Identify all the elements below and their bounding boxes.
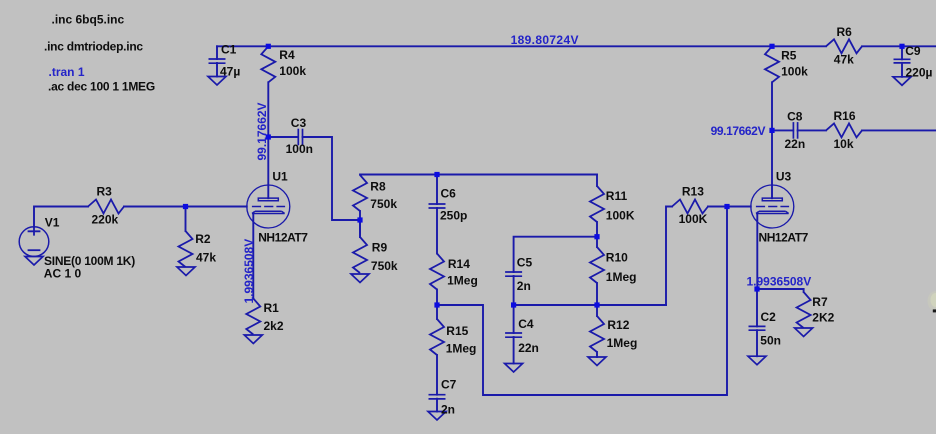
resistor R5 [765,46,779,82]
svg-text:C2: C2 [761,310,777,324]
svg-text:1Meg: 1Meg [446,342,477,356]
wire R8 bottom lead [359,220,361,237]
svg-text:.inc 6bq5.inc: .inc 6bq5.inc [52,12,125,26]
wire C3 right plate to R8 branch [303,137,360,220]
svg-text:99.17662V: 99.17662V [711,124,766,138]
wire C9 bottom lead [901,63,903,77]
svg-text:C9: C9 [905,44,921,58]
svg-text:100k: 100k [279,64,306,78]
svg-text:R16: R16 [834,109,856,123]
svg-text:47µ: 47µ [220,64,240,78]
cursor artifact at right edge [928,291,936,312]
svg-text:NH12AT7: NH12AT7 [258,230,308,244]
svg-text:R15: R15 [446,324,468,338]
resistor R12 [590,316,604,352]
node junction rail / C6 [434,172,439,177]
svg-text:1.9936508V: 1.9936508V [747,275,812,289]
svg-text:U1: U1 [272,169,288,183]
capacitor C4 [505,333,522,337]
wire C2 top lead [756,289,758,326]
wire R5 bottom lead [771,82,773,130]
wire node to C3 left plate [268,136,298,138]
wire U1 anode lead [267,137,269,198]
wire bottom bus C5 node to corner [514,304,666,306]
svg-text:R9: R9 [372,241,388,255]
svg-text:C5: C5 [517,255,533,269]
wire C4 top lead [513,305,515,333]
svg-text:1Meg: 1Meg [606,270,637,284]
svg-text:C3: C3 [291,116,307,130]
svg-text:R3: R3 [97,184,113,198]
node junction U3 cathode / C2 / R7 [754,286,759,291]
wire U1 cathode lead to R1 [252,214,254,299]
wire cathode node to R7 [757,288,804,290]
resistor R16 [826,123,862,137]
wire R11 top lead [596,175,598,187]
svg-text:47k: 47k [196,251,216,265]
svg-text:100n: 100n [286,142,313,156]
ground at V1 [25,257,43,266]
resistor R2 [179,231,193,267]
node junction R3 / R2 / U1 grid [183,204,188,209]
wire U3 cathode lead [756,214,758,290]
node junction R13 / U3 grid [724,204,729,209]
svg-text:.ac dec 100 1 1MEG: .ac dec 100 1 1MEG [48,80,155,94]
svg-text:V1: V1 [45,215,60,229]
resistor R6 [826,39,862,53]
svg-text:22n: 22n [518,341,539,355]
wire corner up to R13 [666,207,672,306]
svg-text:R1: R1 [264,301,280,315]
wire C7 bottom lead [436,399,438,412]
wire R10 bottom lead [596,283,598,305]
svg-text:47k: 47k [834,53,854,67]
wire R4 bottom lead [267,82,269,137]
wire R15 top lead [436,305,438,319]
triode U3 NH12AT7 [751,185,794,228]
wire R11 bottom lead [596,222,598,237]
resistor R3 [88,200,124,214]
wire R2 top lead [185,207,187,232]
node junction C5 / C4 [511,302,516,307]
wire R14 bottom lead [436,290,438,306]
svg-text:100K: 100K [606,208,635,222]
ground at C4 [505,364,523,373]
svg-text:.inc dmtriodep.inc: .inc dmtriodep.inc [44,39,143,53]
wire node to C5 top [514,237,597,272]
wire R7 top lead [803,289,805,292]
ground at R2 [177,267,195,276]
svg-text:750k: 750k [371,259,398,273]
svg-text:189.80724V: 189.80724V [511,33,579,47]
ground at C9 [893,77,911,86]
node junction at B+ rail / R4 [266,44,271,49]
svg-text:R13: R13 [682,184,704,198]
node junction R10 / R12 [594,302,599,307]
ground at C2 [748,356,766,365]
svg-text:C1: C1 [221,43,237,57]
wire R15 to C7 [436,355,438,395]
svg-text:1Meg: 1Meg [447,274,478,288]
ground at R9 [351,274,369,283]
wire R10 top lead [596,237,598,247]
capacitor C9 [894,59,911,63]
ground at R7 [795,328,813,337]
svg-text:100K: 100K [679,212,708,226]
resistor R8 [353,175,367,211]
voltage source V1 [19,227,49,257]
svg-text:C8: C8 [787,110,803,124]
node junction at B+ rail / C9 [899,44,904,49]
ground at C7 [428,412,446,421]
triode U1 NH12AT7 [247,185,290,228]
resistor R4 [261,46,275,82]
capacitor C8 [793,122,797,139]
node junction U1 anode / C3 [266,134,271,139]
svg-text:.tran 1: .tran 1 [49,65,85,79]
wire C5 bottom lead [513,276,515,305]
wire C9 top lead [901,46,903,59]
wire C1 bottom lead [216,63,218,77]
node junction R14 / R15 [434,302,439,307]
wire top rail right of R6 [862,45,936,47]
svg-text:10k: 10k [834,137,854,151]
wire R16 output to edge [862,129,936,131]
wire node to corner feedback path [437,207,727,396]
ground at R1 [244,335,262,344]
wire R3 to U1 grid [124,206,247,208]
svg-text:2n: 2n [517,279,531,293]
svg-text:250p: 250p [440,209,467,223]
wire top rail left of R6 [217,45,826,47]
wire V1 top to R3 [34,207,88,227]
svg-text:2K2: 2K2 [812,311,834,325]
svg-text:R14: R14 [448,257,470,271]
svg-text:750k: 750k [370,197,397,211]
resistor R9 [353,237,367,273]
capacitor C7 [429,395,446,399]
wire R8 top lead [359,211,361,220]
wire middle rail [360,174,597,176]
resistor R1 [246,299,260,335]
svg-text:R4: R4 [279,48,295,62]
wire C1 top lead [216,46,218,59]
svg-text:NH12AT7: NH12AT7 [759,230,809,244]
node junction R11 / R10 / C5 [594,234,599,239]
resistor R11 [590,186,604,222]
resistor R10 [590,247,604,283]
svg-text:R7: R7 [812,295,828,309]
svg-text:C6: C6 [441,187,457,201]
node junction at B+ rail / R5 [769,44,774,49]
ground at C1 [208,77,226,86]
capacitor C6 [429,204,446,208]
capacitor C5 [505,272,522,276]
resistor R15 [430,319,444,355]
svg-text:R2: R2 [195,232,211,246]
capacitor C3 [298,129,302,146]
svg-text:C4: C4 [518,317,534,331]
svg-text:1Meg: 1Meg [607,336,638,350]
wire C4 bottom lead [513,337,515,364]
svg-text:R11: R11 [606,189,628,203]
node junction U3 anode / C8 [769,128,774,133]
resistor R14 [430,254,444,290]
svg-text:99.17662V: 99.17662V [255,102,269,160]
svg-text:R5: R5 [781,48,797,62]
wire R9 top lead [359,220,361,237]
svg-text:22n: 22n [785,137,806,151]
svg-text:R12: R12 [607,318,629,332]
wire R12 top lead [596,305,598,316]
svg-text:R6: R6 [837,25,853,39]
svg-text:U3: U3 [776,169,792,183]
svg-text:2k2: 2k2 [264,319,284,333]
svg-text:1.9936508V: 1.9936508V [242,239,256,304]
svg-text:220k: 220k [92,213,119,227]
svg-text:2n: 2n [441,402,455,416]
wire R13 to U3 grid [708,206,751,208]
ground at R12 [588,357,606,366]
svg-text:50n: 50n [760,333,781,347]
resistor R13 [672,200,708,214]
node junction R8 / R9 [357,217,362,222]
wire C6 to R14 [436,208,438,254]
svg-text:R10: R10 [606,251,628,265]
svg-text:AC 1 0: AC 1 0 [44,266,82,280]
capacitor C1 [209,59,226,63]
svg-text:R8: R8 [370,180,386,194]
wire U3 anode lead [771,130,773,198]
svg-text:220µ: 220µ [906,65,933,79]
svg-text:100k: 100k [781,64,808,78]
wire C2 bottom lead [756,330,758,356]
capacitor C2 [749,326,766,330]
resistor R7 [797,292,811,328]
svg-text:C7: C7 [441,378,457,392]
wire C8 to R16 [798,129,826,131]
wire node to C8 [772,129,793,131]
wire C6 top lead [436,175,438,205]
